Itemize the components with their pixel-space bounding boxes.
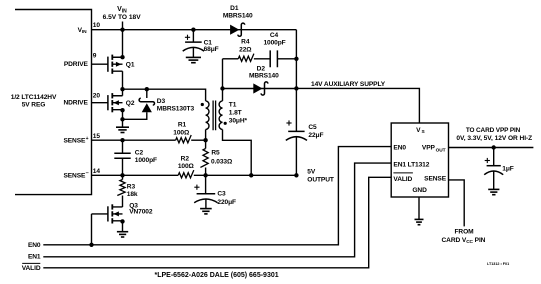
R2 value label (178, 156, 195, 170)
5V OUTPUT net label (307, 169, 334, 184)
svg-text:R2: R2 (181, 156, 190, 163)
svg-text:C5: C5 (308, 124, 317, 131)
svg-text:MBRS130T3: MBRS130T3 (157, 105, 195, 112)
svg-text:1000pF: 1000pF (135, 157, 157, 164)
wire Q1 source stub (122, 30, 124, 58)
Q3 value label (129, 202, 153, 215)
svg-text:5V: 5V (307, 169, 316, 176)
wire R3 to Q3 drain (122, 196, 124, 208)
U1 pin 20 NDRIVE label (63, 93, 100, 107)
node Q2 source/D3 junction (120, 117, 124, 121)
wire D2 anode line (223, 88, 297, 90)
D2 value label (249, 65, 279, 79)
wire D3 anode to Q2 source (123, 112, 147, 119)
D1 value label (223, 5, 253, 20)
wire R5 top stub (205, 140, 207, 148)
wire Q3 source to ground (122, 221, 124, 231)
U1 pin 10 VIN label (78, 22, 101, 35)
wire SENSE to card Vcc (449, 180, 465, 227)
wire VIN rail (92, 29, 297, 31)
wire C5 bottom to 5V output (295, 136, 297, 175)
svg-text:VALID: VALID (22, 265, 41, 272)
resistor R1 (176, 135, 192, 143)
svg-text:+: + (86, 136, 89, 142)
svg-text:0.033Ω: 0.033Ω (211, 158, 233, 165)
wire U2 GND stub (418, 197, 420, 219)
node Q2 source/body junction (120, 108, 124, 112)
svg-text:Q1: Q1 (126, 62, 135, 69)
node snubber/aux rail junction (294, 57, 298, 61)
ground (C3) (200, 209, 212, 214)
U2 pin VPPOUT label (422, 145, 446, 154)
svg-text:T1: T1 (229, 102, 237, 109)
R3 value label (127, 184, 138, 198)
transistor Q2 (N-MOSFET) (92, 93, 123, 112)
svg-text:6.5V TO 18V: 6.5V TO 18V (103, 14, 142, 21)
D3 value label (157, 98, 195, 113)
svg-text:*LPE-6562-A026 DALE (605) 665-: *LPE-6562-A026 DALE (605) 665-9301 (155, 272, 279, 279)
wire VIN label stub (122, 22, 124, 30)
VIN net label (103, 6, 142, 21)
node R5 top junction (203, 138, 207, 142)
wire EN0 net (43, 147, 391, 245)
svg-text:PDRIVE: PDRIVE (64, 61, 89, 68)
svg-text:EN1 LT1312: EN1 LT1312 (393, 162, 429, 169)
svg-text:22μF: 22μF (308, 132, 323, 139)
R1 value label (173, 122, 190, 137)
node Q1 source/body junction (120, 55, 124, 59)
svg-text:R4: R4 (241, 38, 250, 45)
resistor R2 (178, 170, 194, 178)
wire SENSE- / output line left (92, 174, 179, 176)
C3 value label (217, 190, 236, 206)
svg-text:NDRIVE: NDRIVE (63, 100, 88, 107)
capacitor C1 (183, 35, 204, 51)
wire T1 primary bottom to R5 node (205, 130, 207, 141)
svg-text:220μF: 220μF (217, 199, 236, 206)
node secondary/D2 junction (220, 86, 224, 90)
transistor Q3 (N-MOSFET) (92, 204, 123, 223)
svg-text:EN0: EN0 (393, 145, 406, 152)
svg-text:EN1: EN1 (28, 254, 41, 261)
wire C1 bottom stub (192, 48, 194, 58)
wire Q2 drain stub (122, 89, 124, 96)
VALID net label (overlined) (22, 263, 41, 271)
node C5/output junction (294, 173, 298, 177)
node Q3 source/body junction (120, 219, 124, 223)
svg-text:1/2 LTC1142HV: 1/2 LTC1142HV (11, 94, 57, 101)
svg-text:30μH*: 30μH* (229, 118, 248, 125)
svg-text:CARD VCC PIN: CARD VCC PIN (442, 237, 486, 245)
capacitor C5 (286, 120, 307, 140)
U1 name label (11, 94, 57, 109)
svg-text:VPP: VPP (422, 145, 436, 152)
wire VALID net (43, 177, 391, 267)
node SENSE-/C2/R3 junction (120, 173, 124, 177)
svg-text:10: 10 (93, 22, 101, 29)
node R5/C3 junction (203, 173, 207, 177)
U1 pin 14 SENSE- label (63, 168, 100, 180)
capacitor 1uF (484, 158, 503, 175)
svg-text:22Ω: 22Ω (239, 47, 252, 54)
diode D2 MBRS140 (253, 82, 268, 95)
U2 pin VS label (416, 127, 425, 135)
U1 pin 9 PDRIVE label (64, 53, 97, 68)
svg-text:D1: D1 (230, 5, 239, 12)
svg-text:Q2: Q2 (126, 100, 135, 107)
transformer T1 secondary winding (219, 101, 222, 130)
svg-text:14V AUXILIARY SUPPLY: 14V AUXILIARY SUPPLY (311, 81, 386, 88)
resistor R4 (238, 54, 254, 62)
wire VPPOUT to card (449, 147, 534, 149)
svg-text:R5: R5 (211, 150, 220, 157)
svg-text:100Ω: 100Ω (178, 163, 195, 170)
svg-text:20: 20 (93, 93, 101, 100)
wire C3 top stub (205, 175, 207, 193)
IC U2 LT1312 block outline (391, 123, 448, 197)
node secondary return junction (249, 173, 253, 177)
wire R5 bottom stub (205, 168, 207, 176)
node switch/D3 junction (145, 87, 149, 91)
ground (Q3) (117, 232, 128, 237)
svg-text:1.8T: 1.8T (229, 110, 242, 117)
svg-text:5V REG: 5V REG (22, 102, 46, 109)
svg-text:1000pF: 1000pF (263, 40, 285, 47)
R4 value label (239, 38, 252, 53)
transformer T1 core (213, 101, 216, 131)
svg-text:VN7002: VN7002 (129, 209, 153, 216)
C5 value label (308, 124, 323, 139)
node VIN/C1 junction (191, 28, 195, 32)
svg-text:C2: C2 (135, 149, 144, 156)
wire C3 bottom stub (205, 199, 207, 208)
wire aux vertical (D1 cathode down) (295, 30, 297, 132)
TO CARD VPP PIN label (456, 127, 532, 142)
svg-text:SENSE: SENSE (424, 175, 447, 182)
svg-text:SENSE: SENSE (63, 138, 86, 145)
wire Q3 gate riser to EN0 (91, 214, 93, 245)
svg-text:MBRS140: MBRS140 (223, 13, 253, 20)
T1 value label (229, 102, 248, 125)
svg-text:R1: R1 (178, 122, 187, 129)
svg-text:TO CARD VPP PIN: TO CARD VPP PIN (466, 127, 521, 134)
diode D3 MBRS130T3 (139, 98, 154, 112)
ground (U2 GND) (415, 219, 424, 224)
T1 primary phasing dot (201, 103, 204, 106)
node VPPOUT/1uF junction (492, 145, 496, 149)
wire C1 top stub (192, 30, 194, 42)
C1 value label (204, 39, 219, 53)
transistor Q1 (P-MOSFET) (92, 55, 123, 74)
wire EN1 net (43, 163, 391, 257)
U2 pin VALID label (overlined) (393, 173, 413, 183)
node EN0/Q3 gate junction (89, 243, 93, 247)
svg-text:0V, 3.3V, 5V, 12V OR HI-Z: 0V, 3.3V, 5V, 12V OR HI-Z (456, 135, 532, 142)
resistor R3 (117, 180, 125, 196)
C2 value label (135, 149, 157, 164)
wire 1uF bottom stub (493, 171, 495, 189)
resistor R5 (200, 149, 208, 168)
C4 value label (263, 32, 285, 47)
wire Q2 source to ground (122, 110, 124, 127)
wire 1uF top stub (493, 148, 495, 166)
ground (Q2/D3) (116, 127, 129, 132)
wire C2 bottom stub (122, 158, 124, 175)
T1 secondary phasing dot (224, 122, 227, 125)
svg-text:18k: 18k (127, 191, 138, 198)
FROM CARD VCC PIN label (442, 228, 486, 245)
transformer T1 primary winding (206, 101, 209, 130)
wire D3 cathode stub (146, 89, 148, 98)
svg-text:D3: D3 (157, 98, 166, 105)
svg-text:–: – (86, 170, 89, 176)
svg-text:SENSE: SENSE (63, 172, 86, 179)
svg-text:15: 15 (93, 133, 101, 140)
svg-text:VALID: VALID (393, 176, 412, 183)
ground (1uF) (488, 189, 499, 194)
node SENSE+/C2 junction (120, 138, 124, 142)
svg-text:14: 14 (93, 168, 101, 175)
svg-text:LT1312 • F01: LT1312 • F01 (487, 262, 509, 266)
svg-text:FROM: FROM (454, 228, 474, 235)
wire C2 top stub (122, 140, 124, 153)
wire R1 to R5 node (191, 139, 205, 141)
node VIN/Q1 junction (120, 28, 124, 32)
svg-text:MBRS140: MBRS140 (249, 72, 279, 79)
IC U1 1/2 LTC1142HV block outline (15, 10, 92, 195)
wire R4 to C4 (254, 58, 270, 60)
wire output line right (194, 174, 297, 176)
svg-text:9: 9 (93, 53, 97, 60)
wire SENSE+ line (92, 139, 176, 141)
svg-text:V: V (416, 127, 421, 134)
diode D1 MBRS140 (230, 23, 245, 36)
svg-text:C3: C3 (217, 190, 226, 197)
svg-text:68μF: 68μF (204, 46, 219, 53)
wire R3 top stub (122, 175, 124, 179)
node switch/Q2 drain junction (120, 87, 124, 91)
svg-text:GND: GND (412, 187, 427, 194)
svg-text:1μF: 1μF (502, 165, 514, 172)
svg-text:R3: R3 (127, 184, 136, 191)
capacitor C3 (194, 185, 217, 203)
svg-text:D2: D2 (257, 65, 266, 72)
capacitor C2 (114, 153, 130, 158)
U1 pin 15 SENSE+ label (63, 133, 100, 145)
wire T1 secondary top / snubber node (222, 59, 224, 101)
wire C4 to aux rail (277, 58, 296, 60)
svg-text:C4: C4 (270, 32, 279, 39)
ground (C1) (186, 57, 201, 62)
wire snubber left (223, 58, 239, 60)
svg-text:100Ω: 100Ω (173, 130, 190, 137)
wire 14V auxiliary supply to U2 VS (296, 88, 419, 123)
wire switch node to T1 primary (123, 89, 206, 101)
svg-text:OUT: OUT (436, 147, 446, 153)
svg-text:OUTPUT: OUTPUT (307, 176, 334, 183)
wire T1 secondary return to output (223, 130, 252, 176)
wire Q1 drain to switch node (122, 71, 124, 89)
capacitor C4 (270, 50, 277, 67)
R5 value label (211, 150, 233, 166)
svg-text:EN0: EN0 (28, 242, 41, 249)
node D2 cathode/aux junction (294, 86, 298, 90)
